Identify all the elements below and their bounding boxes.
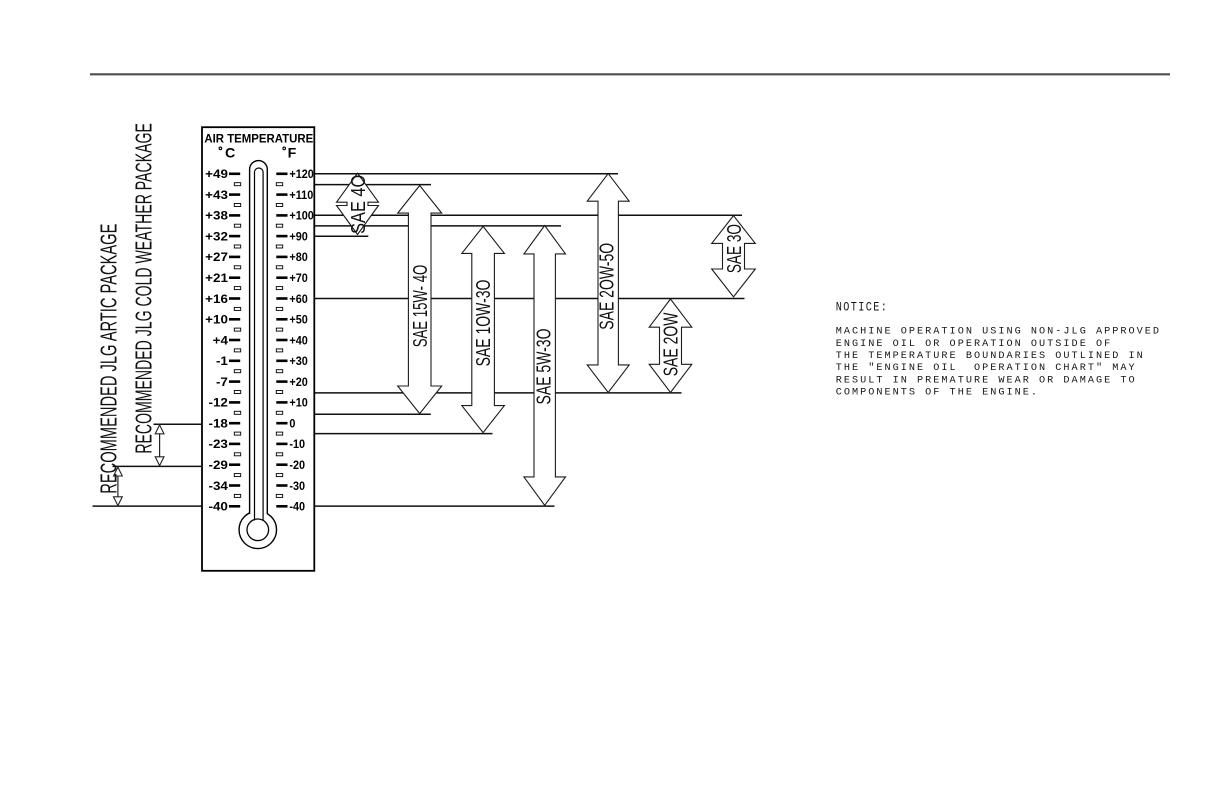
svg-text:RECOMMENDED JLG COLD WEATHER P: RECOMMENDED JLG COLD WEATHER PACKAGE (131, 123, 158, 454)
svg-text:+120: +120 (289, 169, 313, 182)
svg-text:+30: +30 (289, 356, 307, 369)
svg-text:F: F (288, 146, 297, 162)
svg-text:+16: +16 (205, 291, 228, 305)
svg-text:SAE 3O: SAE 3O (723, 224, 745, 273)
svg-text:+27: +27 (205, 250, 228, 264)
svg-text:+40: +40 (289, 335, 307, 348)
svg-text:-18: -18 (209, 416, 228, 430)
svg-text:RESULT IN PREMATURE WEAR OR DA: RESULT IN PREMATURE WEAR OR DAMAGE TO (836, 375, 1137, 386)
svg-text:+32: +32 (205, 229, 228, 243)
svg-text:SAE 4O: SAE 4O (346, 175, 369, 234)
svg-text:+20: +20 (289, 376, 307, 389)
svg-text:SAE 5W-3O: SAE 5W-3O (532, 329, 555, 405)
svg-text:ENGINE OIL OR OPERATION OUTSID: ENGINE OIL OR OPERATION OUTSIDE OF (836, 339, 1113, 350)
svg-text:THE TEMPERATURE BOUNDARIES OUT: THE TEMPERATURE BOUNDARIES OUTLINED IN (836, 351, 1145, 362)
svg-text:-1: -1 (216, 354, 228, 368)
svg-text:+70: +70 (289, 272, 307, 285)
svg-text:0: 0 (289, 418, 295, 431)
svg-text:+60: +60 (289, 293, 307, 306)
svg-text:+10: +10 (289, 397, 307, 410)
svg-text:RECOMMENDED JLG ARTIC PACKAGE: RECOMMENDED JLG ARTIC PACKAGE (96, 224, 122, 494)
svg-text:SAE 15W- 4O: SAE 15W- 4O (409, 265, 431, 348)
svg-text:+100: +100 (289, 210, 313, 223)
svg-text:THE "ENGINE OIL OPERATION CHA: THE "ENGINE OIL OPERATION CHART" MAY (836, 362, 1137, 374)
svg-text:MACHINE OPERATION USING NON-JL: MACHINE OPERATION USING NON-JLG APPROVED (836, 327, 1161, 338)
svg-text:-7: -7 (216, 374, 228, 388)
svg-text:-30: -30 (289, 480, 305, 493)
svg-text:-20: -20 (289, 459, 305, 472)
svg-text:AIR TEMPERATURE: AIR TEMPERATURE (204, 134, 313, 146)
svg-text:SAE 1OW-3O: SAE 1OW-3O (472, 280, 495, 367)
svg-text:+21: +21 (205, 271, 228, 285)
svg-text:+50: +50 (289, 314, 307, 327)
svg-text:-29: -29 (209, 458, 228, 472)
svg-text:NOTICE:: NOTICE: (836, 301, 889, 315)
svg-text:-23: -23 (209, 437, 228, 451)
svg-text:SAE 2OW-5O: SAE 2OW-5O (595, 243, 618, 330)
svg-text:+49: +49 (205, 167, 228, 181)
svg-text:+4: +4 (213, 333, 229, 347)
svg-text:C: C (225, 146, 235, 162)
svg-text:SAE 2OW: SAE 2OW (659, 312, 682, 376)
svg-text:COMPONENTS OF THE ENGINE.: COMPONENTS OF THE ENGINE. (836, 388, 1039, 399)
svg-text:+10: +10 (205, 312, 228, 326)
svg-text:-34: -34 (209, 478, 229, 492)
svg-text:-10: -10 (289, 439, 305, 452)
svg-text:+80: +80 (289, 252, 307, 265)
svg-text:+110: +110 (289, 189, 313, 202)
svg-text:-40: -40 (209, 499, 228, 513)
svg-text:-40: -40 (289, 501, 305, 514)
svg-text:+38: +38 (205, 208, 228, 222)
svg-text:+43: +43 (205, 187, 228, 201)
svg-text:-12: -12 (209, 395, 228, 409)
svg-text:+90: +90 (289, 231, 307, 244)
